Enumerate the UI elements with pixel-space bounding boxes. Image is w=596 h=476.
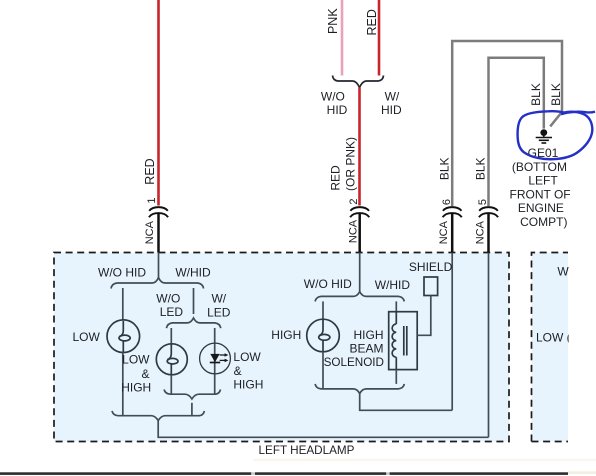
LED circle — [200, 343, 231, 374]
shield box — [424, 277, 438, 296]
svg-text:PNK: PNK — [326, 8, 340, 34]
clip margin right of diagram — [569, 240, 596, 465]
svg-text:LED: LED — [160, 305, 184, 319]
connector pin 6 — [443, 207, 462, 217]
svg-text:FRONT OF: FRONT OF — [510, 187, 571, 201]
svg-text:(OR PNK): (OR PNK) — [343, 137, 357, 191]
outer merge brace (left lamp group) — [112, 411, 204, 421]
LED cathode bar — [210, 362, 220, 364]
svg-text:W/HID: W/HID — [175, 266, 211, 280]
svg-text:NCA: NCA — [347, 219, 359, 243]
LED triangle — [210, 354, 219, 362]
left headlamp box — [54, 253, 509, 442]
svg-text:BLK: BLK — [549, 83, 563, 106]
split brace mid W/O HID vs W/HID — [315, 292, 404, 302]
wire outer merge output to pin5 riser — [158, 421, 488, 438]
wire low bulb to merge — [122, 353, 124, 416]
svg-text:HID: HID — [381, 103, 402, 117]
wire BLK pin 5 to ground GE01 — [489, 58, 544, 206]
svg-text:BEAM: BEAM — [349, 342, 383, 356]
svg-text:RED: RED — [143, 158, 157, 184]
LED arrows — [220, 353, 229, 362]
bulb LOW&HIGH filament — [167, 345, 171, 360]
wire pin5 riser — [488, 253, 490, 438]
svg-text:6: 6 — [441, 199, 453, 205]
svg-text:W/O HID: W/O HID — [98, 266, 146, 280]
wire lead from pin2 — [359, 253, 361, 293]
svg-text:LEFT: LEFT — [528, 174, 558, 188]
pin 1 lead black — [157, 214, 160, 253]
ground GE01 symbol — [536, 129, 552, 143]
pin 5 lead black — [487, 214, 490, 253]
bulb LOW&HIGH (w/o LED) circle — [156, 344, 187, 375]
wire RED (top, w/ HID) — [378, 0, 381, 76]
table top border — [0, 471, 596, 475]
annotation blue pen circle around ground GE01 — [518, 111, 595, 159]
wire branch right (W/HID group) — [193, 288, 195, 314]
solenoid box — [389, 312, 418, 370]
bulb LOW (w/o HID) circle — [107, 320, 140, 353]
wire shield to solenoid — [417, 296, 431, 336]
svg-text:W/O: W/O — [321, 89, 345, 103]
svg-text:HID: HID — [327, 103, 348, 117]
svg-text:BLK: BLK — [474, 157, 488, 180]
wire mid merge output to pin6 riser — [360, 394, 453, 411]
svg-text:BLK: BLK — [438, 157, 452, 180]
svg-text:LEFT HEADLAMP: LEFT HEADLAMP — [259, 444, 355, 457]
svg-text:HIGH: HIGH — [271, 328, 301, 342]
svg-text:HIGH: HIGH — [233, 378, 263, 392]
split brace W/O HID vs W/HID — [111, 278, 204, 289]
svg-text:W/: W/ — [385, 89, 400, 103]
wire branch solenoid — [395, 301, 397, 311]
wire RED (OR PNK) merged to pin 2 — [358, 88, 361, 206]
faint cream row above table — [253, 459, 596, 461]
wire RED feed (left, to pin 1) — [157, 0, 160, 206]
wire solenoid to merge — [395, 370, 397, 384]
svg-text:SHIELD: SHIELD — [409, 260, 453, 274]
split brace W/O LED vs W/ LED — [166, 318, 220, 328]
svg-text:RED: RED — [365, 9, 379, 35]
svg-text:LED: LED — [207, 306, 231, 320]
svg-text:&: & — [234, 364, 242, 378]
svg-text:SOLENOID: SOLENOID — [324, 356, 384, 369]
svg-text:W/: W/ — [211, 291, 226, 305]
wire branch HIGH bulb — [322, 301, 324, 319]
svg-text:BLK: BLK — [529, 83, 543, 106]
svg-text:&: & — [141, 367, 149, 381]
bulb LOW filament — [119, 321, 123, 337]
pin 6 lead black — [451, 214, 454, 253]
inner merge brace (LED group) — [164, 390, 220, 399]
wire bulb2 to inner merge — [170, 375, 172, 394]
bulb HIGH circle — [307, 319, 340, 352]
svg-text:LOW: LOW — [72, 330, 100, 344]
svg-text:LOW (: LOW ( — [536, 330, 571, 344]
svg-text:NCA: NCA — [474, 220, 486, 244]
solenoid coil — [395, 312, 397, 324]
label GE01 location — [510, 146, 571, 229]
connector pin 2 — [350, 207, 369, 217]
svg-text:2: 2 — [348, 198, 360, 204]
wire BLK pin 6 to ground GE01 — [452, 41, 562, 206]
bulb HIGH filament — [319, 320, 323, 336]
connector pin 1 — [149, 207, 168, 217]
wire PNK (top) — [341, 0, 344, 76]
merge brace PNK/RED — [333, 76, 384, 88]
svg-text:LOW: LOW — [233, 350, 261, 364]
wire pin6 riser — [451, 253, 453, 411]
wire sub-branch right (LED) — [214, 328, 216, 394]
svg-text:(BOTTOM: (BOTTOM — [512, 160, 567, 174]
svg-text:NCA: NCA — [438, 220, 450, 244]
svg-text:W: W — [557, 265, 569, 279]
svg-text:HIGH: HIGH — [121, 381, 151, 395]
svg-text:NCA: NCA — [144, 220, 156, 244]
solenoid core lines — [403, 326, 405, 356]
merge brace mid section — [315, 384, 404, 394]
connector pin 5 — [479, 207, 498, 217]
svg-text:W/HID: W/HID — [375, 278, 411, 292]
svg-text:RED: RED — [329, 165, 343, 191]
svg-text:LOW: LOW — [122, 353, 150, 367]
right headlamp box (clipped) — [532, 253, 569, 442]
svg-text:ENGINE: ENGINE — [518, 201, 564, 215]
wire sub-branch left (bulb) — [170, 328, 172, 344]
svg-text:HIGH: HIGH — [354, 328, 384, 342]
wire HIGH bulb to merge — [322, 352, 324, 389]
wire lead from pin1 — [158, 253, 160, 279]
svg-text:W/O: W/O — [156, 291, 180, 305]
svg-text:5: 5 — [477, 199, 489, 205]
wire stub inner merge to outer merge — [191, 403, 193, 416]
svg-text:W/O HID: W/O HID — [304, 277, 352, 291]
wire diagonal into ground — [550, 113, 561, 127]
svg-text:COMPT): COMPT) — [520, 215, 567, 229]
svg-text:1: 1 — [146, 197, 158, 203]
pin 2 lead black — [358, 214, 361, 253]
wire branch left (low bulb) — [122, 288, 124, 320]
